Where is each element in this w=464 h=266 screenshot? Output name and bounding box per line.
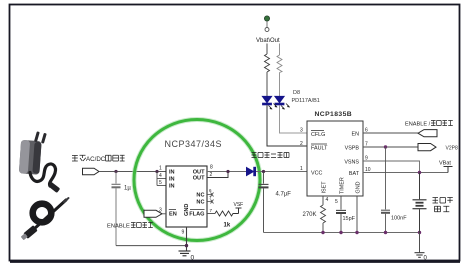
resistor FLAG pull-up bbox=[207, 213, 215, 215]
svg-text:4: 4 bbox=[326, 197, 329, 203]
svg-text:EN: EN bbox=[169, 212, 177, 218]
label wall AC/DC adapter (Chinese) bbox=[72, 155, 86, 161]
svg-text:2: 2 bbox=[210, 172, 213, 178]
svg-text:IN: IN bbox=[169, 170, 175, 176]
charger chip NCP1835B box bbox=[307, 121, 363, 196]
ground 0 right bbox=[415, 253, 425, 258]
resistor 270K bbox=[322, 196, 324, 205]
node BAT junction bbox=[418, 171, 421, 174]
svg-text:VBat: VBat bbox=[439, 161, 451, 167]
svg-text:1: 1 bbox=[300, 166, 303, 172]
resistor LED right bbox=[279, 44, 281, 56]
svg-text:IN: IN bbox=[169, 184, 175, 190]
AC/DC wall adapter photo bbox=[19, 131, 69, 240]
V2P8 connector bbox=[418, 144, 436, 151]
svg-text:9: 9 bbox=[182, 230, 185, 236]
svg-text:NC: NC bbox=[196, 193, 204, 199]
svg-text:VSF: VSF bbox=[234, 202, 244, 208]
wire EN bbox=[162, 213, 166, 215]
svg-text:NC: NC bbox=[196, 200, 204, 206]
svg-text:ISET: ISET bbox=[321, 181, 327, 194]
svg-text:100nF: 100nF bbox=[391, 216, 407, 222]
wire input to chip bbox=[99, 171, 166, 173]
svg-text:AC/DC: AC/DC bbox=[86, 156, 106, 163]
svg-text:3: 3 bbox=[300, 128, 303, 134]
wire LED right to CFLG bbox=[280, 105, 308, 133]
LED D8 right bbox=[275, 96, 284, 104]
svg-text:D8: D8 bbox=[293, 90, 300, 96]
svg-text:2: 2 bbox=[300, 141, 303, 147]
power flag VSF bbox=[236, 208, 242, 214]
wire bottom bus bbox=[264, 232, 420, 234]
svg-text:FLAG: FLAG bbox=[189, 212, 204, 218]
capacitor timer bbox=[336, 196, 346, 233]
svg-text:GND: GND bbox=[355, 181, 361, 193]
svg-text:15pF: 15pF bbox=[343, 216, 356, 222]
op chip NCP347 box bbox=[166, 166, 207, 227]
svg-text:BAT: BAT bbox=[349, 171, 360, 177]
wire VSPB bbox=[363, 146, 418, 148]
pin names NCP347 bbox=[169, 170, 205, 218]
node ground junction bbox=[185, 244, 188, 247]
capacitor 100nF bbox=[381, 147, 390, 233]
wire battery to ground bbox=[419, 233, 421, 253]
svg-text:GND: GND bbox=[184, 204, 190, 216]
svg-text:NCP1835B: NCP1835B bbox=[315, 111, 353, 118]
svg-text:VSPB: VSPB bbox=[345, 146, 360, 152]
svg-text:5: 5 bbox=[159, 180, 162, 186]
svg-text:0: 0 bbox=[191, 255, 195, 262]
node pin fan junction bbox=[155, 170, 158, 173]
svg-text:ENABLE: ENABLE bbox=[107, 224, 130, 230]
svg-text:CFLG: CFLG bbox=[311, 132, 325, 138]
svg-text:1k: 1k bbox=[224, 223, 231, 229]
node diode out junction bbox=[262, 170, 265, 173]
svg-text:ENABLE /: ENABLE / bbox=[405, 122, 431, 128]
capacitor 4.7uF bbox=[259, 172, 269, 233]
svg-text:5: 5 bbox=[335, 199, 338, 205]
schottky diode D? bbox=[247, 167, 256, 175]
green highlight circle bbox=[134, 120, 260, 241]
svg-text:EN: EN bbox=[352, 132, 360, 138]
pin names NCP1835B bbox=[311, 132, 361, 195]
battery Li-ion bbox=[413, 173, 427, 233]
label battery (Chinese) bbox=[433, 198, 453, 212]
svg-text:VCC: VCC bbox=[311, 171, 322, 177]
wire cap to ground bus bbox=[116, 245, 187, 247]
svg-text:Vbat\Out: Vbat\Out bbox=[256, 38, 280, 44]
svg-text:3: 3 bbox=[159, 208, 162, 214]
NC stubs bbox=[207, 193, 214, 204]
svg-text:V2P8: V2P8 bbox=[446, 146, 458, 152]
wire EN to connector bbox=[363, 132, 418, 134]
svg-text:8: 8 bbox=[210, 165, 213, 171]
svg-text:OUT: OUT bbox=[193, 176, 205, 182]
node VSPB junction bbox=[384, 145, 387, 148]
LED terminal bbox=[264, 16, 269, 21]
input port connector bbox=[83, 168, 100, 175]
svg-text:NCP347/34S: NCP347/34S bbox=[165, 139, 223, 149]
wire OUT main bbox=[207, 171, 307, 173]
ENABLE right connector bbox=[418, 130, 437, 137]
svg-text:TIMER: TIMER bbox=[339, 177, 345, 194]
ground stem NCP347 bbox=[186, 227, 188, 251]
node out junction bbox=[226, 170, 229, 173]
svg-text:1µ: 1µ bbox=[124, 186, 131, 192]
ENABLE connector bbox=[144, 210, 162, 217]
LED D8 left bbox=[262, 96, 271, 104]
svg-text:FAULT: FAULT bbox=[311, 146, 328, 152]
wire BAT bbox=[363, 172, 448, 174]
svg-text:VSNS: VSNS bbox=[344, 160, 359, 166]
svg-text:270K: 270K bbox=[303, 212, 317, 218]
wire GND pin bbox=[356, 196, 358, 233]
wire OUT pin2 jog bbox=[207, 172, 228, 178]
ground 0 bbox=[179, 251, 191, 256]
wire VSNS bbox=[363, 161, 420, 173]
resistor LED left bbox=[266, 44, 268, 55]
label schottky (Chinese) bbox=[252, 153, 290, 158]
capacitor 1u bbox=[112, 172, 121, 246]
node bus junctions bbox=[321, 231, 324, 234]
svg-text:PD117A/B1: PD117A/B1 bbox=[292, 98, 320, 104]
wire LED left to FAULT bbox=[267, 105, 307, 146]
svg-text:IN: IN bbox=[169, 177, 175, 183]
LED light arrows bbox=[269, 104, 291, 110]
svg-text:1: 1 bbox=[159, 166, 162, 172]
svg-text:4.7µF: 4.7µF bbox=[276, 192, 292, 198]
node input junction bbox=[114, 170, 117, 173]
power flag VBat bbox=[444, 167, 453, 173]
pin numbers NCP1835B bbox=[300, 128, 371, 206]
wire pin fan bbox=[157, 172, 166, 186]
svg-text:4: 4 bbox=[159, 173, 162, 179]
